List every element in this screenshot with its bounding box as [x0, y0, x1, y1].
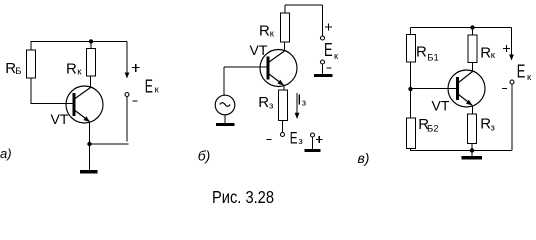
minus sign a — [133, 100, 138, 102]
wire collector stub b — [284, 42, 286, 51]
svg-text:Е: Е — [324, 40, 333, 60]
transistor VT a — [66, 86, 103, 124]
plus sign a — [132, 64, 139, 72]
terminal circle EE negative b — [281, 133, 285, 137]
wire collector stub v — [472, 63, 474, 72]
label EE b — [290, 129, 303, 148]
svg-text:з: з — [302, 98, 306, 109]
terminal circle EK negative a — [125, 93, 129, 97]
resistor RB2 box — [407, 118, 416, 149]
label VT a — [51, 111, 69, 127]
svg-text:VT: VT — [250, 42, 268, 58]
ground a — [80, 170, 98, 173]
label EK a — [145, 77, 160, 97]
label RK b — [259, 23, 275, 40]
label RE b — [258, 94, 273, 112]
svg-text:R: R — [416, 44, 427, 61]
label RE v — [480, 116, 495, 134]
label IE b — [297, 92, 306, 109]
wire top rail b — [285, 4, 323, 6]
wire RB2 to bottom rail — [410, 149, 412, 152]
svg-text:VT: VT — [51, 111, 69, 127]
ground source b — [216, 123, 235, 126]
wire base b — [224, 66, 267, 68]
svg-text:б): б) — [198, 148, 211, 164]
svg-text:Рис. 3.28: Рис. 3.28 — [212, 187, 274, 207]
wire RB bottom to base corner — [30, 78, 32, 104]
minus sign EE b — [267, 139, 272, 141]
label VT v — [432, 98, 450, 114]
svg-text:Б1: Б1 — [427, 53, 439, 64]
ground v — [462, 151, 483, 160]
plus sign b — [325, 24, 332, 31]
plus sign EE b — [316, 136, 323, 143]
resistor RE box b — [279, 90, 288, 121]
label RK v — [480, 45, 496, 62]
minus sign v — [502, 88, 507, 90]
wire source to ground b — [224, 115, 226, 123]
wire EE positive to ground b — [312, 137, 314, 149]
resistor RE box v — [468, 114, 477, 144]
svg-text:к: к — [77, 67, 82, 78]
transistor VT v — [448, 70, 485, 107]
wire collector stub a — [90, 76, 92, 88]
resistor RB1 box — [407, 35, 416, 63]
label RB2 — [418, 116, 438, 135]
wire RE to bottom rail v — [471, 144, 473, 151]
svg-text:з: з — [298, 136, 302, 147]
wire top rail v — [411, 27, 512, 29]
svg-text:Б: Б — [15, 66, 21, 77]
svg-text:R: R — [66, 61, 77, 78]
wire EK positive lead a (arrow down) — [125, 42, 130, 79]
svg-text:а): а) — [0, 146, 12, 161]
wire EK positive lead v (arrow down) — [509, 28, 514, 61]
ac source G b — [215, 95, 235, 115]
terminal circle EK negative v — [510, 80, 514, 84]
resistor RK box b — [281, 13, 290, 42]
minus sign b top — [327, 67, 332, 69]
svg-text:к: к — [155, 85, 160, 96]
wire base a — [31, 103, 75, 105]
svg-text:в): в) — [358, 150, 370, 166]
wire emitter stub b — [283, 86, 285, 91]
wire divider mid v — [410, 62, 412, 118]
wire RK top stub b — [284, 5, 286, 13]
terminal circle EK negative b — [321, 60, 325, 64]
wire top rail a — [31, 41, 128, 43]
junction dot RK top rail v — [470, 25, 474, 29]
resistor RK box a — [87, 49, 96, 77]
wire RK top stub a — [90, 42, 92, 49]
wire emitter drop a — [89, 122, 91, 171]
svg-text:к: к — [491, 50, 496, 61]
svg-text:з: з — [269, 101, 273, 112]
label RK a — [66, 61, 82, 78]
svg-text:з: з — [491, 123, 495, 134]
wire EK negative lead v — [511, 84, 513, 151]
svg-text:R: R — [480, 45, 491, 62]
label EK b — [324, 40, 339, 62]
caption Ris. 3.28 — [212, 187, 274, 207]
label EK v — [517, 62, 532, 84]
svg-text:к: к — [527, 72, 532, 83]
wire source drop b — [223, 67, 225, 96]
ground EK b — [314, 74, 333, 77]
wire emitter stub v — [472, 106, 474, 115]
label v) — [358, 150, 370, 166]
current arrow IE b — [295, 93, 300, 119]
wire EK negative lead a — [126, 97, 128, 142]
wire left drop to RB — [30, 42, 32, 51]
svg-text:Е: Е — [290, 129, 298, 148]
svg-text:к: к — [334, 51, 339, 62]
plus sign v — [503, 45, 510, 52]
junction dot base v — [408, 87, 412, 91]
terminal circle EE positive b — [311, 133, 315, 137]
svg-text:Б2: Б2 — [427, 124, 439, 135]
terminal circle EK positive b — [321, 36, 325, 40]
wire left drop to RB1 — [410, 28, 412, 35]
transistor VT b — [260, 50, 297, 88]
label RB — [5, 60, 21, 77]
svg-text:Е: Е — [145, 77, 153, 97]
wire bottom rail v — [411, 150, 512, 152]
junction dot RK top rail a — [89, 39, 93, 43]
resistor RB box — [27, 50, 36, 78]
svg-text:R: R — [258, 94, 269, 111]
junction dot ground v — [470, 148, 474, 152]
wire EK negative to ground b — [322, 64, 324, 74]
wire RE bottom stub b — [282, 121, 284, 133]
wire RK top stub v — [472, 28, 474, 36]
svg-text:R: R — [259, 23, 270, 40]
svg-text:VT: VT — [432, 98, 450, 114]
label b) — [198, 148, 211, 164]
wire bottom return a — [90, 143, 129, 145]
wire EK positive lead b — [322, 5, 324, 36]
label a) — [0, 146, 12, 161]
junction dot emitter/return a — [87, 142, 91, 146]
wire base v — [411, 88, 457, 90]
ground EE b — [305, 149, 321, 152]
svg-text:к: к — [270, 29, 275, 40]
label RB1 — [416, 44, 439, 64]
label VT b — [250, 42, 268, 58]
svg-text:Е: Е — [517, 62, 526, 82]
resistor RK box v — [468, 35, 477, 63]
